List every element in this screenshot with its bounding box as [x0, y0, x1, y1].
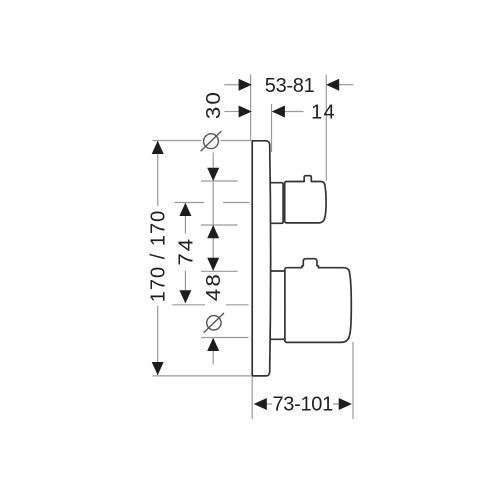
svg-text:170 / 170: 170 / 170: [147, 210, 169, 302]
svg-text:73-101: 73-101: [272, 394, 333, 416]
svg-text:30: 30: [203, 90, 225, 119]
svg-text:4: 4: [323, 102, 334, 124]
svg-text:48: 48: [203, 272, 225, 301]
svg-text:1: 1: [311, 102, 322, 124]
svg-text:53-81: 53-81: [265, 75, 315, 97]
svg-text:74: 74: [175, 237, 197, 266]
